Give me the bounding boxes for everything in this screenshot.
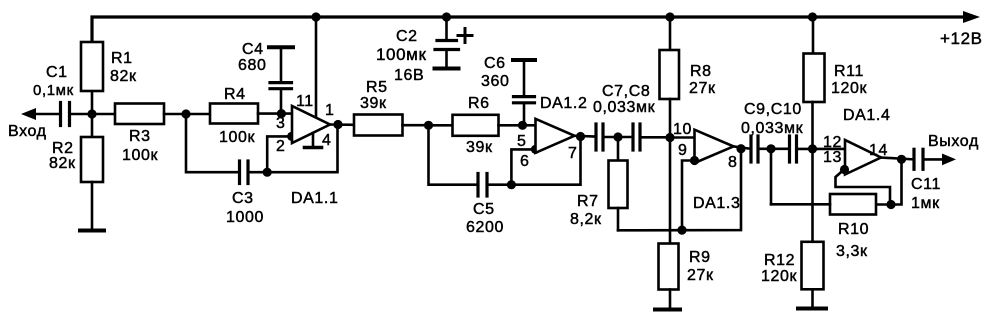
svg-text:1000: 1000	[226, 209, 264, 226]
svg-text:R10: R10	[838, 221, 869, 238]
svg-text:3: 3	[276, 115, 286, 132]
op-amp DA1.2	[536, 119, 575, 153]
wire feedback1 to output	[267, 125, 337, 173]
svg-text:9: 9	[678, 142, 688, 159]
node pin5-C6	[518, 121, 527, 130]
svg-text:680: 680	[238, 57, 267, 74]
node R10 right	[886, 200, 895, 209]
svg-text:6: 6	[520, 153, 530, 170]
svg-text:C11: C11	[911, 176, 941, 193]
svg-text:6200: 6200	[466, 219, 504, 236]
svg-text:DA1.4: DA1.4	[843, 107, 890, 124]
node R5-R6	[424, 121, 433, 130]
capacitor C2	[445, 17, 448, 39]
svg-text:C1: C1	[46, 64, 68, 81]
resistor R10	[830, 194, 876, 215]
resistor R8	[669, 17, 672, 50]
svg-text:3,3к: 3,3к	[836, 243, 868, 260]
wire feedback2 to output	[511, 137, 580, 185]
svg-text:R7: R7	[577, 193, 599, 210]
resistor R6	[429, 124, 453, 127]
svg-text:C4: C4	[242, 41, 264, 58]
node pin2	[287, 132, 296, 141]
wire pin9 riser	[682, 161, 695, 231]
svg-text:100к: 100к	[219, 129, 255, 146]
svg-text:5: 5	[517, 133, 527, 150]
capacitor C1	[59, 103, 62, 126]
svg-text:82к: 82к	[110, 68, 137, 85]
ground DA1.1 pin4	[312, 133, 315, 147]
svg-text:R3: R3	[129, 128, 151, 145]
svg-text:R4: R4	[224, 86, 246, 103]
svg-text:R5: R5	[366, 79, 388, 96]
svg-text:100к: 100к	[122, 147, 158, 164]
+12V arrow	[963, 11, 980, 23]
svg-text:120к: 120к	[761, 268, 797, 285]
svg-text:82к: 82к	[49, 155, 76, 172]
svg-text:360: 360	[481, 73, 510, 90]
node rail-C2	[442, 12, 451, 21]
svg-text:4: 4	[322, 132, 332, 149]
node C3-feedback	[263, 168, 272, 177]
resistor R1	[91, 91, 94, 114]
node pin12	[808, 144, 817, 153]
capacitor C7	[594, 124, 597, 150]
wire feedback3	[618, 149, 741, 231]
ground R12	[811, 289, 814, 308]
svg-text:R1: R1	[111, 50, 133, 67]
svg-text:7: 7	[568, 145, 578, 162]
wire C9C10 node down	[770, 149, 773, 205]
svg-text:C6: C6	[484, 55, 506, 72]
pin 11 wire	[315, 17, 318, 117]
node input	[87, 109, 96, 118]
resistor R7	[617, 137, 620, 161]
svg-text:27к: 27к	[687, 267, 714, 284]
op-amp DA1.1	[292, 106, 330, 143]
wire +12V top rail	[92, 17, 964, 42]
node pin9-feedback	[677, 226, 686, 235]
ground R9	[669, 290, 672, 310]
node DA1.4 output	[881, 158, 912, 160]
svg-text:C2: C2	[396, 28, 418, 45]
capacitor C9	[749, 136, 752, 162]
capacitor C8	[631, 124, 634, 150]
capacitor C5	[476, 174, 479, 197]
svg-text:R9: R9	[689, 249, 711, 266]
svg-text:100мк: 100мк	[376, 45, 427, 64]
resistor R3	[92, 113, 115, 116]
node pin13	[840, 165, 849, 174]
op-amp DA1.3	[695, 130, 734, 163]
wire pin2 riser	[267, 136, 292, 172]
wire output down	[876, 159, 902, 204]
resistor R4	[186, 113, 210, 116]
svg-text:C7,C8: C7,C8	[602, 83, 650, 100]
svg-text:2: 2	[276, 138, 286, 155]
svg-text:27к: 27к	[689, 80, 716, 97]
svg-text:10: 10	[673, 121, 692, 138]
node DA1.1 output	[330, 123, 354, 126]
svg-text:+12В: +12В	[940, 29, 983, 48]
node DA1.2 output	[575, 135, 595, 138]
node pin10	[665, 133, 674, 142]
svg-text:8: 8	[728, 154, 738, 171]
resistor R9	[659, 244, 679, 290]
svg-text:DA1.2: DA1.2	[540, 95, 587, 112]
node rail-pin11	[311, 12, 320, 21]
node pin3-C4	[277, 109, 286, 118]
resistor R11	[812, 17, 815, 54]
ground R2	[91, 182, 94, 230]
node C7-C8/R7	[613, 132, 622, 141]
wire feedback2 down-left	[429, 125, 478, 184]
ground C6 top	[513, 58, 535, 62]
capacitor C6	[523, 104, 526, 125]
node R3-R4	[181, 109, 190, 118]
resistor R12	[811, 149, 814, 242]
ground C2	[435, 67, 459, 71]
node rail-R11	[808, 12, 817, 21]
node rail-R8	[665, 12, 674, 21]
svg-text:39к: 39к	[360, 95, 387, 112]
svg-text:120к: 120к	[831, 80, 867, 97]
svg-text:16В: 16В	[394, 67, 424, 84]
svg-text:DA1.1: DA1.1	[291, 190, 338, 207]
svg-text:0,1мк: 0,1мк	[33, 82, 74, 99]
wire divider to R9	[669, 138, 672, 244]
output arrow Выход	[942, 154, 956, 166]
svg-text:0,033мк: 0,033мк	[593, 99, 656, 116]
svg-text:R12: R12	[764, 252, 795, 269]
svg-text:39к: 39к	[466, 139, 493, 156]
node DA1.3 output	[734, 146, 751, 148]
resistor R2	[91, 114, 94, 137]
svg-text:1: 1	[325, 102, 335, 119]
ground C4 top	[269, 45, 293, 49]
svg-text:11: 11	[296, 93, 314, 110]
capacitor C10	[788, 136, 791, 162]
plus sign C2 polarity	[458, 34, 472, 37]
wire pin13 hook	[836, 170, 891, 205]
wire feedback1 down-left	[186, 114, 238, 172]
svg-text:1мк: 1мк	[911, 195, 940, 212]
node C9-C10	[766, 144, 775, 153]
svg-text:13: 13	[823, 149, 842, 166]
svg-text:0,033мк: 0,033мк	[741, 120, 804, 137]
input arrow Вход	[21, 108, 36, 120]
svg-text:Выход: Выход	[928, 133, 979, 150]
svg-text:R11: R11	[834, 63, 864, 80]
svg-text:8,2к: 8,2к	[570, 211, 602, 228]
svg-text:R8: R8	[690, 63, 712, 80]
svg-text:Вход: Вход	[8, 123, 47, 140]
svg-text:DA1.3: DA1.3	[693, 195, 740, 212]
wire pin6 riser	[511, 149, 535, 184]
capacitor C3	[238, 161, 241, 184]
capacitor C11	[912, 149, 915, 169]
op-amp DA1.4	[845, 140, 881, 175]
svg-text:C5: C5	[473, 201, 495, 218]
resistor R5	[354, 115, 403, 136]
svg-text:C3: C3	[232, 190, 254, 207]
svg-text:C9,C10: C9,C10	[744, 101, 802, 118]
capacitor C4	[280, 89, 283, 114]
svg-text:R6: R6	[468, 95, 490, 112]
node C5-feedback	[507, 180, 516, 189]
node pin9 edge	[690, 156, 699, 165]
node pin6	[531, 145, 540, 154]
